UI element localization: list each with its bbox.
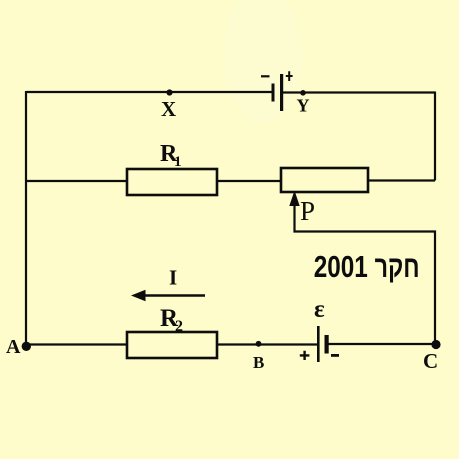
battery top: negative plate (short, left)	[272, 84, 275, 102]
battery bottom plus sign	[300, 351, 310, 360]
svg-text:1: 1	[174, 154, 182, 170]
node X dot	[166, 89, 172, 95]
svg-text:ε: ε	[314, 296, 325, 323]
wire middle left (to R1)	[26, 180, 130, 182]
battery top minus sign	[261, 75, 270, 77]
svg-text:חקר: חקר	[375, 249, 420, 284]
battery top: positive plate (long, right)	[280, 74, 283, 111]
resistor R1	[127, 169, 217, 195]
svg-text:I: I	[169, 266, 177, 290]
wire potentiometer right terminal	[366, 179, 435, 181]
wire right vertical (top loop)	[434, 92, 436, 181]
svg-text:Y: Y	[297, 96, 310, 116]
svg-text:A: A	[6, 336, 21, 358]
label R1	[160, 141, 182, 170]
wire bottom right (battery to C)	[328, 343, 436, 345]
wire left vertical	[25, 91, 27, 345]
current arrow I	[131, 290, 205, 301]
caption 2001 research (Hebrew)	[314, 249, 368, 283]
battery bottom: positive plate (long, left)	[317, 326, 320, 362]
wire bottom left (A to battery)	[26, 343, 317, 345]
svg-text:P: P	[300, 196, 315, 226]
potentiometer wiper arrowhead P	[289, 191, 299, 207]
node Y dot	[300, 90, 306, 96]
svg-text:2: 2	[175, 318, 183, 335]
svg-text:B: B	[253, 353, 264, 372]
node B dot	[256, 341, 262, 347]
label R2	[160, 305, 183, 335]
battery bottom: negative plate (short, right)	[325, 335, 329, 354]
wire top-right segment (battery to right corner)	[283, 91, 435, 93]
node C dot	[431, 340, 440, 349]
svg-text:C: C	[423, 349, 438, 373]
svg-text:2001: 2001	[314, 249, 368, 283]
svg-text:X: X	[161, 97, 176, 121]
wire middle between R1 and potentiometer	[214, 180, 284, 182]
node A dot	[22, 342, 31, 351]
battery top plus sign	[286, 71, 293, 81]
battery bottom minus sign	[331, 354, 339, 357]
wire wiper P to C (down, right, down)	[295, 202, 436, 344]
wire top-left segment (to battery)	[26, 91, 272, 93]
potentiometer track	[281, 168, 368, 192]
resistor R2	[127, 332, 217, 358]
caption Hebrew word (research)	[375, 249, 420, 284]
